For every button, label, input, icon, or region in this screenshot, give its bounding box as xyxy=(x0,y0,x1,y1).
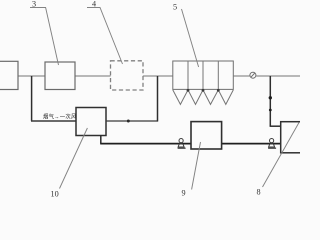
wire riser x=157.5 xyxy=(157,76,159,122)
bag filter 5 hoppers xyxy=(173,90,234,105)
leader 4 xyxy=(87,8,123,65)
svg-text:3: 3 xyxy=(32,0,36,9)
leader 3 xyxy=(30,8,59,66)
wire drop at x=270.3 from main line xyxy=(269,76,271,126)
leader 10 xyxy=(60,128,88,189)
bag filter 5 dividers xyxy=(188,61,218,89)
flow dots on drop xyxy=(269,96,272,99)
leader 8 xyxy=(263,123,300,188)
leader 9 xyxy=(192,142,201,190)
svg-text:5: 5 xyxy=(173,3,177,12)
leader 5 xyxy=(182,9,199,67)
rotary valve at x=271.5 xyxy=(268,139,276,149)
box 10 xyxy=(76,108,106,136)
flow dot xyxy=(127,120,130,123)
valve (circle) on main line xyxy=(250,72,256,78)
box 9 xyxy=(191,122,222,149)
svg-text:8: 8 xyxy=(257,188,261,197)
wire bottom ash line xyxy=(100,143,191,145)
rotary valve at x=181 xyxy=(178,139,186,149)
svg-text:10: 10 xyxy=(51,190,59,199)
box 4 (dashed) xyxy=(111,61,144,90)
wire elbow into box 8 xyxy=(270,125,281,127)
svg-text:4: 4 xyxy=(92,0,96,9)
svg-text:9: 9 xyxy=(182,189,186,198)
wire drop at x=31.6 to recirculation duct xyxy=(31,76,33,121)
wire duct into box 10 xyxy=(31,120,76,122)
wire box10 bottom drop xyxy=(100,136,102,144)
box 3 xyxy=(45,62,75,90)
wire main flue line y=76 xyxy=(18,75,300,77)
hopper junction dots xyxy=(187,89,220,92)
svg-text:烟气→一次风: 烟气→一次风 xyxy=(43,113,77,121)
furnace box at left edge (cut off) xyxy=(0,61,18,89)
box 8 (cut off at right) xyxy=(281,122,303,153)
bag filter 5 body xyxy=(173,61,234,89)
wire box10 right to riser xyxy=(106,120,158,122)
